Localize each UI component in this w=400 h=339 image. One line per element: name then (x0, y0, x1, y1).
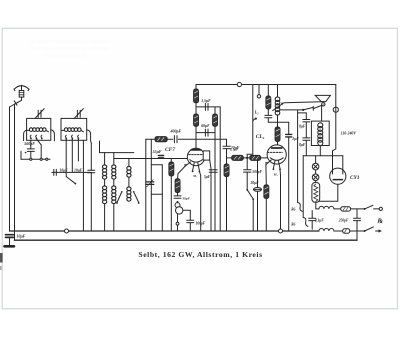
wire HT rail (196, 84, 336, 86)
svg-text:2µF: 2µF (291, 137, 299, 141)
svg-text:Selbt, 162 GW, Allstrom, 1 Kre: Selbt, 162 GW, Allstrom, 1 Kreis (138, 250, 262, 259)
svg-text:Rö: Rö (291, 208, 295, 212)
svg-text:250pF: 250pF (338, 218, 349, 222)
lamp dial b (312, 174, 319, 181)
svg-text:M₁: M₁ (273, 172, 278, 176)
wire heater chain left (297, 110, 299, 203)
switch speaker (302, 105, 322, 111)
svg-text:10µF: 10µF (74, 168, 83, 172)
capacitor 55uF series (158, 156, 163, 158)
antenna (14, 85, 29, 91)
wire vertical x91 (90, 143, 92, 231)
wire CL4 grid row (227, 157, 268, 159)
wire oscillator coil feed (99, 141, 101, 153)
wire CL4 cathode junction (279, 169, 282, 229)
wire CF7 screen down (210, 160, 211, 231)
switch output lower (364, 227, 382, 233)
trimmer capacitor on L1 (35, 109, 44, 119)
tube CY1 envelope (330, 168, 346, 184)
tube CL4 envelope (267, 145, 286, 164)
band switch arm a (116, 191, 123, 204)
CF7 screen box (203, 151, 210, 160)
trimmer capacitor on L2 (74, 109, 83, 119)
wire lower cap row (196, 132, 215, 134)
svg-text:8µF: 8µF (299, 125, 306, 129)
wire padder row (52, 171, 92, 173)
wire ballast to output row (316, 202, 319, 209)
svg-text:M₁: M₁ (192, 174, 197, 178)
svg-text:CY1: CY1 (350, 175, 360, 181)
capacitor on grid line (88, 170, 95, 173)
resistor ballast heater dropper (312, 183, 320, 203)
svg-text:100pF: 100pF (196, 221, 206, 225)
node HT rail connector (237, 82, 241, 86)
svg-text:560pF: 560pF (24, 141, 35, 146)
node junction dot (246, 157, 248, 159)
resistor anode lower (194, 114, 199, 126)
coil L3b winding (112, 153, 116, 231)
wire lamp to ballast (315, 181, 317, 183)
terminal L2 pickup (257, 85, 260, 99)
capacitor 560pF (27, 141, 34, 159)
coil L3c winding (127, 159, 131, 202)
coil L1 winding (27, 128, 49, 132)
wire mains riser lower (333, 112, 336, 171)
ghost bleed-through text (30, 38, 109, 59)
CY1 anode tick (332, 170, 334, 175)
CF7 grid (189, 154, 203, 156)
CL4 anode plate (272, 147, 282, 149)
capacitor 500pF (244, 159, 251, 189)
wire between lamps (315, 170, 317, 174)
svg-text:im flachen Teil des Ganges lie: im flachen Teil des Ganges liegt die (30, 38, 109, 45)
resistor 1M grid (155, 137, 167, 142)
svg-text:110-240V: 110-240V (341, 131, 357, 135)
coil L1 shield box (27, 118, 51, 140)
wire screen feed row (196, 106, 220, 108)
capacitor 0,1uF across (309, 211, 316, 230)
resistor coupling a (232, 155, 244, 160)
wire L1 left exit (24, 130, 27, 140)
wire bypass loop (151, 165, 162, 195)
wire grid row (146, 138, 220, 140)
CF7 heater (192, 163, 201, 173)
svg-text:5µF: 5µF (204, 175, 211, 179)
node terminal on bus 1 right (279, 229, 283, 233)
capacitor below feed resistor (265, 109, 289, 122)
svg-text:400pF: 400pF (170, 129, 182, 134)
capacitor 8uF lower (303, 138, 310, 156)
CY1 cathode tick (342, 170, 344, 175)
svg-text:Drehkondensator des: Drehkondensator des (41, 53, 89, 59)
choke HF output upper (319, 206, 334, 209)
wire CF7 cathode down (199, 171, 200, 231)
resistor CL4 anode stopper (275, 127, 280, 145)
heater tap brace b (303, 218, 308, 227)
wire signal row to grid (114, 158, 188, 160)
wire vertical x151 (150, 139, 152, 231)
capacitor 5uF cathode (209, 170, 217, 172)
CF7 anode plate (191, 149, 200, 151)
band switch arm lower (66, 177, 76, 185)
wire CY1 cathode down (316, 184, 338, 201)
wire L2 tap middle (71, 139, 73, 172)
wire tap to speaker (284, 101, 321, 104)
svg-text:Spule des Empfangskreises mit: Spule des Empfangskreises mit dem (30, 45, 108, 52)
wire L2 right exit (87, 130, 92, 143)
capacitor 8uF upper (303, 120, 310, 138)
wire tap x162 (161, 194, 163, 231)
resistor screen divider lower (175, 179, 180, 193)
lamp dial a (312, 163, 319, 170)
wire DC link to CY1 (342, 156, 344, 171)
resistor on x171 (169, 159, 174, 232)
wire L2 tap right (77, 139, 79, 161)
edge smudge (0, 253, 3, 263)
wire row1 right (351, 208, 365, 210)
wire aerial selector row (21, 145, 50, 159)
wire CL4 cathode left (266, 160, 272, 185)
resistor output upper (341, 207, 351, 211)
node terminal on bus 1 left (65, 229, 69, 233)
wire filter caps top stub (298, 113, 307, 119)
svg-text:10µF: 10µF (17, 234, 26, 239)
tube CF7 envelope (187, 148, 204, 165)
variable tap arrow (273, 103, 284, 111)
svg-text:55µF: 55µF (153, 149, 162, 154)
capacitor 250pF across (354, 209, 361, 240)
capacitor electrolytic 30uF (254, 160, 262, 231)
resistor grid leak CL4 (224, 164, 229, 231)
wire L1 right exit (51, 130, 55, 141)
resistor screen column (213, 107, 218, 231)
wire pot wiper (183, 210, 190, 219)
svg-text:Rö: Rö (291, 223, 295, 227)
resistor coupling b (250, 155, 261, 160)
wire coil to speaker switch (280, 109, 303, 111)
speaker horn (315, 95, 330, 106)
node antenna junction (10, 100, 22, 107)
wire speaker coil feed (321, 106, 323, 121)
capacitor electrolytic on x151 (146, 180, 154, 187)
antenna fuse F1 (19, 91, 24, 101)
resistor output lower (343, 229, 350, 233)
wire CF7 cathode left (178, 162, 191, 179)
terminal mains connector (333, 107, 338, 112)
capacitor 10uF series left (54, 169, 57, 175)
capacitor 1,5uF (205, 103, 208, 110)
coil L2 winding (61, 128, 84, 132)
CL4 heater (273, 161, 281, 170)
svg-text:10µF: 10µF (60, 168, 69, 172)
coil L3a winding (103, 153, 107, 231)
svg-text:CF7: CF7 (165, 147, 175, 153)
capacitor 2uF coupling (286, 122, 292, 231)
svg-text:60µF: 60µF (201, 124, 210, 128)
wire lamp column feed (315, 156, 317, 164)
CL4 cathode (270, 158, 283, 161)
wire antenna downlead left (9, 107, 11, 231)
capacitor 20uF (223, 139, 230, 164)
wire CF7 anode top (195, 126, 197, 149)
wire stub to 20uF column (220, 138, 226, 140)
wire row2 right (350, 230, 365, 232)
wire row1 to resistor (334, 208, 341, 210)
resistor output stage feed (266, 85, 271, 110)
wire row2 to resistor (334, 230, 343, 232)
coil L2 shield box (61, 118, 87, 140)
wire vertical x146 (145, 139, 147, 231)
svg-text:L₂: L₂ (254, 110, 260, 115)
wire x253 from rail (247, 85, 253, 157)
CL4 grid (268, 151, 283, 153)
svg-text:CL₄: CL₄ (256, 134, 265, 140)
wire L2 tap down (65, 139, 67, 177)
heater tap brace a (298, 203, 303, 212)
field coil box (311, 121, 329, 156)
wire mains side drop (302, 156, 304, 218)
L2 terminals and switch (65, 135, 79, 139)
wire antenna downlead right (14, 104, 16, 240)
wire coilset top rail (100, 152, 134, 154)
capacitor 100pF (187, 220, 194, 231)
wire vertical x83 (82, 140, 84, 231)
resistor CL4 cathode bias (264, 185, 269, 231)
switch tone (246, 189, 254, 231)
node pickup dot (253, 118, 257, 122)
wire chassis bus 1 (10, 230, 319, 232)
svg-text:0,1µF: 0,1µF (230, 147, 239, 151)
capacitor 10uF to ground (6, 235, 14, 246)
wire x220 drop (219, 107, 221, 231)
svg-text:8µF: 8µF (299, 143, 306, 147)
svg-text:1,5µF: 1,5µF (201, 99, 211, 103)
CY1 filament (333, 179, 342, 181)
CF7 cathode (190, 160, 203, 163)
choke HF output lower (319, 229, 334, 232)
coil output transformer primary (275, 85, 280, 128)
ground (5, 245, 15, 248)
band switch arm b (133, 191, 140, 204)
capacitor 60uF (205, 129, 208, 136)
potentiometer volume (175, 201, 183, 231)
svg-text:℞: ℞ (377, 218, 383, 225)
wire DC link row (303, 155, 343, 157)
capacitor 400pF (174, 136, 177, 143)
switch output upper (364, 205, 383, 210)
node selector dots (25, 152, 48, 160)
svg-text:50pF: 50pF (183, 196, 191, 200)
svg-text:0,1µF: 0,1µF (315, 218, 325, 222)
L1 terminals and wave switch (30, 135, 42, 145)
wire mains riser (335, 85, 337, 108)
wire mains bus 2 (15, 239, 358, 241)
capacitor 50pF (174, 193, 181, 199)
resistor anode decoupling upper (194, 85, 199, 115)
